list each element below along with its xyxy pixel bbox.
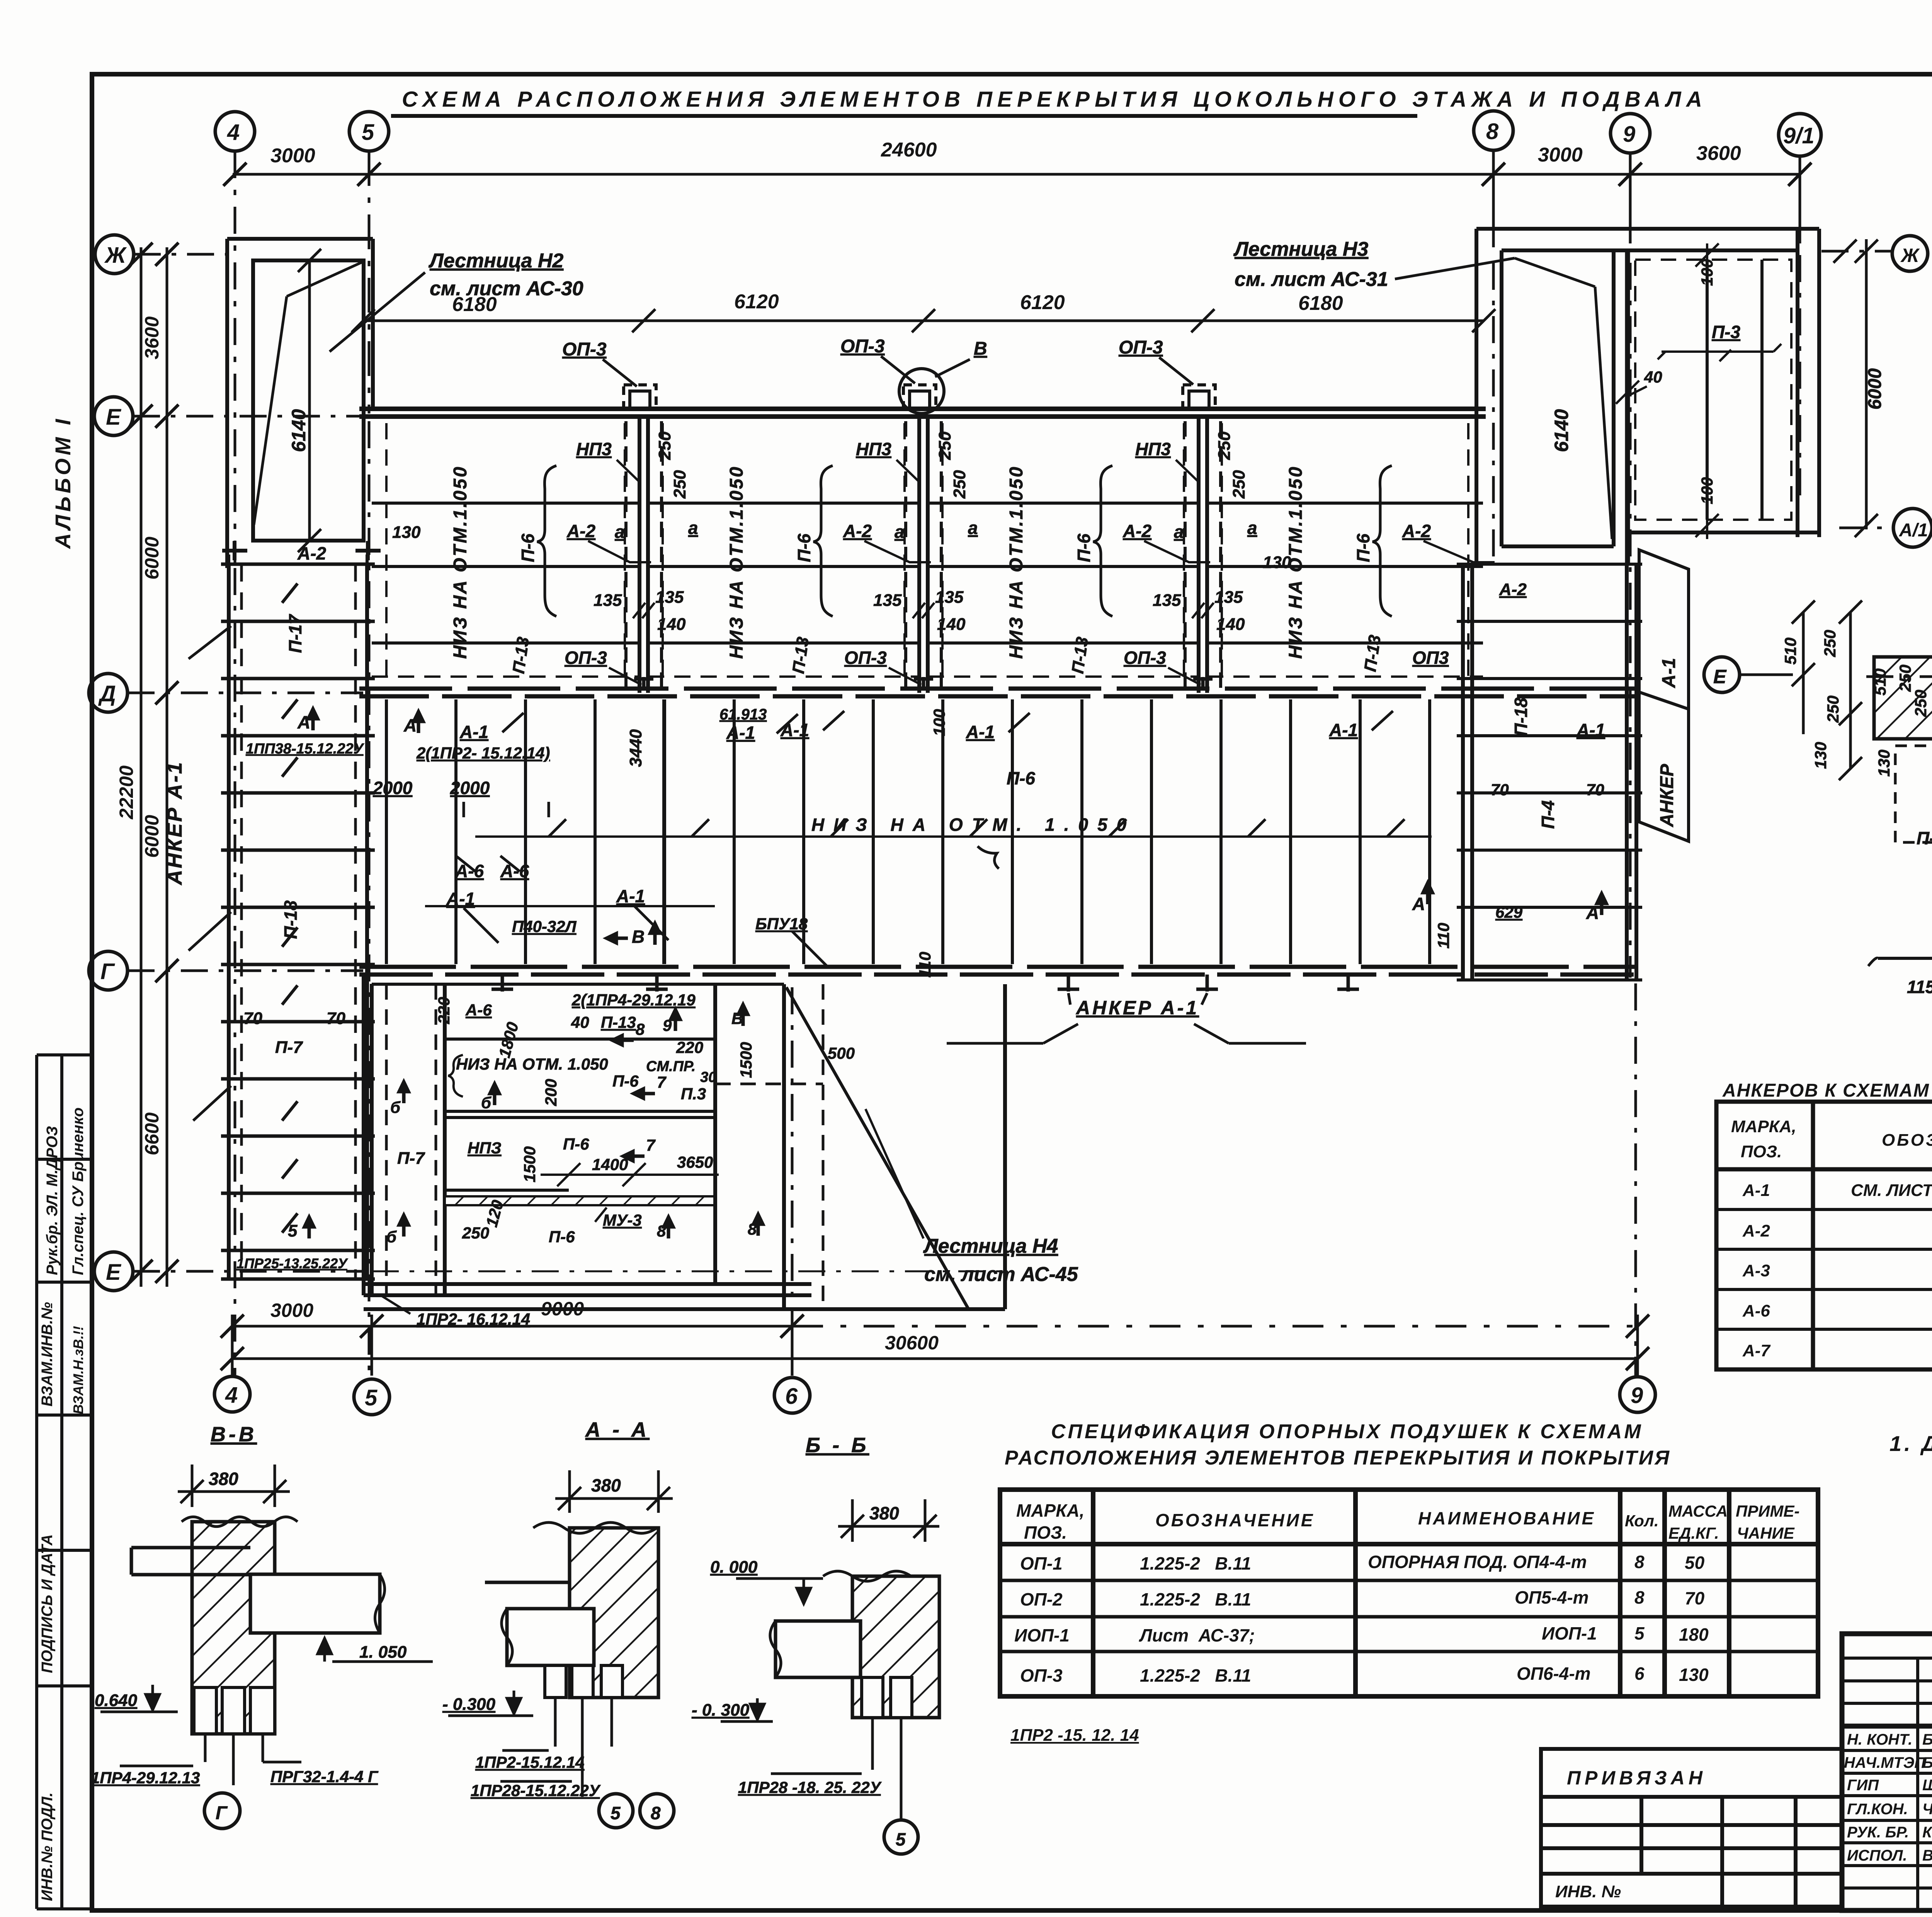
- svg-text:см. лист АС-30: см. лист АС-30: [430, 277, 583, 300]
- svg-text:А-2: А-2: [566, 521, 596, 541]
- svg-text:а: а: [615, 522, 625, 542]
- svg-text:МАРКА,: МАРКА,: [1731, 1117, 1796, 1136]
- svg-text:А-1: А-1: [1742, 1181, 1770, 1200]
- svg-text:Д: Д: [98, 681, 116, 706]
- svg-text:6180: 6180: [1298, 292, 1343, 315]
- svg-text:Гл.спец. СУ Бриненко: Гл.спец. СУ Бриненко: [70, 1107, 87, 1275]
- svg-text:ОП-3: ОП-3: [1020, 1665, 1063, 1686]
- svg-text:30: 30: [700, 1069, 716, 1085]
- svg-text:1.225-2 В.11: 1.225-2 В.11: [1140, 1553, 1251, 1573]
- svg-text:А-2: А-2: [1742, 1221, 1770, 1240]
- svg-text:СПЕЦИФИКАЦИЯ ОПОРНЫХ ПОДУШЕК: СПЕЦИФИКАЦИЯ ОПОРНЫХ ПОДУШЕК К СХЕМАМ: [1051, 1420, 1643, 1443]
- svg-text:А - А: А - А: [585, 1418, 650, 1441]
- svg-text:1ПР4-29.12.13: 1ПР4-29.12.13: [91, 1769, 200, 1787]
- svg-text:ОП-3: ОП-3: [565, 648, 607, 668]
- svg-text:НП3: НП3: [1135, 439, 1171, 459]
- svg-text:- 0. 300: - 0. 300: [692, 1701, 750, 1720]
- svg-text:6120: 6120: [1020, 291, 1065, 314]
- svg-text:6600: 6600: [141, 1112, 163, 1155]
- svg-text:110: 110: [1434, 923, 1452, 949]
- svg-text:П-3: П-3: [1712, 322, 1740, 342]
- svg-text:А-1: А-1: [966, 722, 995, 742]
- svg-text:2000: 2000: [450, 778, 490, 798]
- svg-text:61.913: 61.913: [719, 706, 767, 723]
- svg-text:40: 40: [571, 1013, 589, 1031]
- svg-text:АЛЬБОМ I: АЛЬБОМ I: [51, 416, 75, 549]
- svg-text:П-4: П-4: [1538, 800, 1558, 829]
- svg-text:А-2: А-2: [1499, 580, 1527, 599]
- svg-text:6: 6: [1634, 1664, 1645, 1684]
- svg-text:250: 250: [655, 431, 674, 460]
- svg-text:6140: 6140: [1551, 409, 1572, 452]
- svg-text:3600: 3600: [1696, 142, 1741, 165]
- svg-text:ВЗАМ.ИНВ.№: ВЗАМ.ИНВ.№: [39, 1302, 56, 1407]
- svg-text:ПОЗ.: ПОЗ.: [1024, 1522, 1067, 1543]
- svg-text:3000: 3000: [270, 145, 315, 167]
- svg-text:РАСПОЛОЖЕНИЯ ЭЛЕМЕНТОВ ПЕРЕК: РАСПОЛОЖЕНИЯ ЭЛЕМЕНТОВ ПЕРЕКРЫТИЯ И ПОКР…: [1005, 1447, 1671, 1469]
- svg-text:2(1ПР4-29.12.19: 2(1ПР4-29.12.19: [571, 991, 696, 1009]
- svg-text:220: 220: [676, 1038, 703, 1056]
- svg-text:А-6: А-6: [455, 861, 484, 881]
- svg-text:5: 5: [362, 120, 374, 145]
- svg-text:В: В: [632, 927, 645, 947]
- svg-text:500: 500: [828, 1044, 855, 1062]
- svg-text:ПРГ32-1.4-4 Г: ПРГ32-1.4-4 Г: [270, 1767, 379, 1786]
- svg-text:250: 250: [1215, 431, 1234, 460]
- svg-text:П-6: П-6: [549, 1228, 575, 1246]
- svg-text:1ПР2- 16.12.14: 1ПР2- 16.12.14: [417, 1310, 530, 1328]
- svg-text:А-1: А-1: [446, 889, 475, 909]
- svg-text:7: 7: [646, 1136, 656, 1154]
- svg-text:СМ. ЛИСТ АС-56: СМ. ЛИСТ АС-56: [1851, 1181, 1932, 1200]
- svg-text:АНКЕРОВ К СХЕМАМ РАСПОЛОЖЕН: АНКЕРОВ К СХЕМАМ РАСПОЛОЖЕНИЯ ЭЛЕМЕНТОВ …: [1722, 1080, 1932, 1101]
- svg-text:1ПР28 -18. 25. 22У: 1ПР28 -18. 25. 22У: [738, 1778, 882, 1796]
- svg-text:а: а: [688, 518, 698, 538]
- svg-text:1.225-2 В.11: 1.225-2 В.11: [1140, 1589, 1251, 1609]
- svg-text:ИНВ. №: ИНВ. №: [1555, 1882, 1621, 1901]
- svg-text:А-1: А-1: [616, 886, 645, 906]
- svg-text:АНКЕР А-1: АНКЕР А-1: [1075, 997, 1199, 1019]
- svg-text:100: 100: [1698, 477, 1716, 504]
- svg-text:5: 5: [1634, 1623, 1645, 1643]
- svg-text:СМ.ПР.: СМ.ПР.: [646, 1058, 696, 1075]
- svg-text:70: 70: [1491, 781, 1509, 799]
- svg-text:ОП-1: ОП-1: [1020, 1553, 1063, 1573]
- svg-text:П-7: П-7: [275, 1038, 303, 1057]
- svg-text:5: 5: [288, 1221, 298, 1240]
- svg-text:135: 135: [655, 588, 684, 607]
- svg-text:5: 5: [365, 1385, 378, 1410]
- svg-text:ОБОЗНАЧЕНИЕ: ОБОЗНАЧЕНИЕ: [1155, 1510, 1315, 1530]
- svg-text:22200: 22200: [116, 765, 137, 820]
- svg-text:100: 100: [930, 709, 948, 736]
- svg-text:250: 250: [670, 470, 689, 499]
- svg-text:8: 8: [1634, 1552, 1645, 1572]
- svg-text:БУХАРИНА: БУХАРИНА: [1922, 1731, 1932, 1748]
- svg-text:130: 130: [1875, 750, 1893, 777]
- svg-text:6000: 6000: [141, 537, 163, 580]
- svg-text:А-2: А-2: [297, 543, 327, 563]
- svg-text:см. лист АС-31: см. лист АС-31: [1235, 268, 1388, 291]
- svg-text:1ПР25-13.25.22У: 1ПР25-13.25.22У: [236, 1255, 348, 1271]
- svg-text:ПОЗ.: ПОЗ.: [1741, 1142, 1782, 1161]
- svg-text:НИЗ НА ОТМ.1.050: НИЗ НА ОТМ.1.050: [450, 465, 471, 659]
- svg-text:130: 130: [1263, 553, 1291, 572]
- svg-text:а: а: [968, 518, 978, 538]
- svg-text:135: 135: [1153, 591, 1181, 610]
- svg-text:380: 380: [209, 1469, 238, 1489]
- svg-text:А-6: А-6: [465, 1001, 492, 1019]
- svg-text:А: А: [1586, 903, 1599, 923]
- svg-text:СХЕМА РАСПОЛОЖЕНИЯ ЭЛЕМЕНТОВ П: СХЕМА РАСПОЛОЖЕНИЯ ЭЛЕМЕНТОВ ПЕРЕКРЫТИЯ …: [402, 87, 1707, 112]
- svg-text:3440: 3440: [626, 729, 645, 767]
- svg-text:510: 510: [1781, 638, 1799, 665]
- svg-text:ПРИВЯЗАН: ПРИВЯЗАН: [1567, 1767, 1706, 1789]
- svg-text:А-1: А-1: [726, 723, 755, 743]
- svg-text:НП3: НП3: [856, 439, 891, 459]
- svg-text:АНКЕР: АНКЕР: [1657, 764, 1677, 827]
- svg-text:70: 70: [243, 1009, 262, 1028]
- svg-text:6000: 6000: [1865, 368, 1885, 410]
- svg-text:В-В: В-В: [211, 1423, 257, 1446]
- svg-text:0. 000: 0. 000: [710, 1558, 758, 1577]
- svg-text:135: 135: [594, 591, 622, 610]
- svg-text:А/1: А/1: [1899, 520, 1928, 541]
- svg-text:7: 7: [657, 1073, 667, 1091]
- svg-text:БПУ18: БПУ18: [755, 915, 808, 933]
- svg-text:135: 135: [935, 588, 964, 607]
- svg-text:ОП3: ОП3: [1412, 648, 1449, 668]
- svg-text:3600: 3600: [141, 316, 163, 359]
- svg-text:1500: 1500: [737, 1042, 755, 1078]
- svg-text:1.225-2 В.11: 1.225-2 В.11: [1140, 1665, 1251, 1686]
- svg-text:70: 70: [1685, 1588, 1705, 1608]
- svg-text:ЕД.КГ.: ЕД.КГ.: [1668, 1524, 1719, 1542]
- svg-text:ОБОЗНАЧЕНИЕ: ОБОЗНАЧЕНИЕ: [1882, 1131, 1932, 1150]
- svg-text:ОП-3: ОП-3: [1124, 648, 1166, 668]
- svg-text:100: 100: [1698, 259, 1716, 286]
- svg-text:НИЗ НА ОТМ. 1.050: НИЗ НА ОТМ. 1.050: [811, 815, 1136, 835]
- svg-text:250: 250: [1896, 665, 1914, 692]
- svg-text:ОП-3: ОП-3: [1119, 337, 1163, 358]
- svg-text:250: 250: [1912, 690, 1930, 717]
- svg-text:Рук.бр. ЭЛ. М.ДРОЗ: Рук.бр. ЭЛ. М.ДРОЗ: [44, 1126, 61, 1275]
- svg-text:380: 380: [591, 1475, 621, 1495]
- svg-text:130: 130: [392, 523, 421, 542]
- svg-text:ГЛ.КОН.: ГЛ.КОН.: [1847, 1801, 1908, 1818]
- svg-text:П-17: П-17: [285, 614, 305, 653]
- svg-text:б: б: [386, 1228, 397, 1246]
- svg-text:4: 4: [227, 120, 240, 145]
- svg-text:3000: 3000: [1538, 144, 1583, 166]
- svg-text:140: 140: [937, 615, 966, 634]
- svg-text:250: 250: [1821, 630, 1839, 657]
- svg-text:ИОП-1: ИОП-1: [1542, 1623, 1597, 1643]
- svg-text:А-1: А-1: [1659, 658, 1679, 688]
- svg-text:115: 115: [1907, 977, 1932, 997]
- svg-text:А-6: А-6: [1742, 1301, 1770, 1320]
- svg-text:130: 130: [1811, 742, 1830, 769]
- svg-text:50: 50: [1685, 1553, 1705, 1573]
- svg-text:МАРКА,: МАРКА,: [1016, 1500, 1085, 1521]
- svg-text:Ж: Ж: [104, 243, 127, 268]
- svg-text:40: 40: [1644, 368, 1662, 386]
- svg-text:а: а: [1247, 518, 1257, 538]
- svg-text:135: 135: [1214, 588, 1243, 607]
- svg-text:510: 510: [1871, 668, 1889, 696]
- svg-text:ПРИМЕ-: ПРИМЕ-: [1736, 1502, 1799, 1520]
- svg-text:В: В: [974, 338, 987, 359]
- svg-text:6120: 6120: [734, 291, 779, 313]
- svg-text:Г: Г: [216, 1803, 228, 1823]
- svg-text:Лист АС-37;: Лист АС-37;: [1139, 1625, 1255, 1645]
- svg-text:220: 220: [435, 997, 453, 1024]
- svg-text:1. ДАННЫЙ ЛИСТ СМ. СОВМЕС: 1. ДАННЫЙ ЛИСТ СМ. СОВМЕСТНО С ЛИСТАМИ А…: [1889, 1431, 1932, 1456]
- svg-text:РУК. БР.: РУК. БР.: [1847, 1824, 1909, 1841]
- svg-text:А-7: А-7: [1742, 1341, 1771, 1360]
- svg-text:Лестница Н2: Лестница Н2: [428, 250, 563, 272]
- svg-text:ЧЕРНЕЦКИЙ: ЧЕРНЕЦКИЙ: [1922, 1800, 1932, 1818]
- svg-text:Лестница Н3: Лестница Н3: [1233, 238, 1368, 260]
- svg-text:ВОЛЬФЛЕНОК: ВОЛЬФЛЕНОК: [1922, 1847, 1932, 1864]
- svg-text:НИЗ НА ОТМ.1.050: НИЗ НА ОТМ.1.050: [1006, 465, 1027, 659]
- svg-text:НИЗ НА ОТМ. 1.050: НИЗ НА ОТМ. 1.050: [456, 1055, 608, 1073]
- svg-text:П40-32Л: П40-32Л: [512, 917, 577, 936]
- svg-text:ОПОРНАЯ ПОД. ОП4-4-т: ОПОРНАЯ ПОД. ОП4-4-т: [1368, 1552, 1587, 1572]
- svg-text:70: 70: [327, 1009, 345, 1028]
- svg-text:П-6: П-6: [1074, 534, 1094, 562]
- svg-text:8: 8: [651, 1803, 661, 1823]
- svg-text:А-2: А-2: [1122, 521, 1152, 541]
- svg-text:АНКЕР А-1: АНКЕР А-1: [163, 761, 186, 886]
- svg-text:ИСПОЛ.: ИСПОЛ.: [1847, 1847, 1907, 1864]
- svg-text:А-2: А-2: [1402, 521, 1431, 541]
- svg-text:ВЗАМ.Н.зВ.!!: ВЗАМ.Н.зВ.!!: [70, 1326, 86, 1414]
- svg-text:П-6: П-6: [1917, 828, 1932, 848]
- svg-text:24600: 24600: [881, 139, 937, 161]
- svg-text:НАЧ.МТЭП: НАЧ.МТЭП: [1844, 1754, 1926, 1771]
- svg-text:6000: 6000: [141, 815, 163, 858]
- svg-text:А: А: [1412, 894, 1425, 914]
- svg-text:3650: 3650: [677, 1153, 713, 1171]
- svg-text:9/1: 9/1: [1783, 123, 1815, 148]
- svg-text:П.3: П.3: [681, 1085, 706, 1103]
- svg-text:ОП-3: ОП-3: [844, 648, 887, 668]
- svg-text:П-6: П-6: [518, 534, 538, 562]
- svg-text:1. 050: 1. 050: [359, 1643, 407, 1662]
- svg-text:3000: 3000: [270, 1300, 313, 1321]
- svg-text:1ПП38-15.12.22У: 1ПП38-15.12.22У: [246, 741, 365, 757]
- svg-text:6: 6: [785, 1384, 798, 1409]
- svg-text:А-2: А-2: [843, 521, 872, 541]
- svg-text:Ж: Ж: [1900, 245, 1920, 266]
- svg-text:250: 250: [462, 1224, 489, 1242]
- svg-text:ПОДПИСЬ И ДАТА: ПОДПИСЬ И ДАТА: [39, 1534, 56, 1673]
- svg-text:П-18: П-18: [1511, 697, 1531, 736]
- svg-text:1500: 1500: [520, 1146, 539, 1182]
- svg-text:ИНВ.№ ПОДЛ.: ИНВ.№ ПОДЛ.: [39, 1793, 56, 1901]
- svg-text:70: 70: [1586, 781, 1604, 799]
- svg-text:250: 250: [1824, 696, 1842, 723]
- svg-text:1ПР28-15.12.22У: 1ПР28-15.12.22У: [471, 1781, 601, 1800]
- svg-text:9: 9: [1623, 122, 1635, 147]
- svg-text:250: 250: [950, 470, 969, 499]
- svg-text:1ПР2 -15. 12. 14: 1ПР2 -15. 12. 14: [1010, 1726, 1139, 1745]
- svg-text:4: 4: [225, 1383, 238, 1408]
- svg-text:250: 250: [935, 431, 954, 460]
- svg-text:135: 135: [873, 591, 902, 610]
- svg-text:МАССА: МАССА: [1668, 1502, 1728, 1520]
- svg-text:ОП5-4-т: ОП5-4-т: [1515, 1587, 1589, 1607]
- svg-text:2(1ПР2- 15.12.14): 2(1ПР2- 15.12.14): [416, 744, 550, 762]
- svg-text:8: 8: [1486, 119, 1499, 144]
- svg-text:9: 9: [1631, 1383, 1643, 1408]
- svg-text:П-6: П-6: [563, 1135, 589, 1153]
- svg-text:140: 140: [657, 615, 686, 634]
- svg-text:П-18: П-18: [281, 900, 301, 939]
- svg-text:а: а: [895, 522, 905, 542]
- svg-text:П-13: П-13: [601, 1013, 636, 1031]
- svg-text:МУ-3: МУ-3: [603, 1211, 642, 1229]
- svg-text:ОП6-4-т: ОП6-4-т: [1517, 1664, 1591, 1684]
- svg-text:А-1: А-1: [459, 722, 488, 742]
- svg-text:БЕГАНСКАЯ: БЕГАНСКАЯ: [1922, 1754, 1932, 1771]
- svg-text:НП3: НП3: [576, 439, 612, 459]
- svg-text:НАИМЕНОВАНИЕ: НАИМЕНОВАНИЕ: [1418, 1508, 1595, 1528]
- svg-text:ИОП-1: ИОП-1: [1014, 1625, 1070, 1645]
- svg-text:б: б: [390, 1098, 401, 1116]
- svg-text:НИЗ НА ОТМ.1.050: НИЗ НА ОТМ.1.050: [726, 465, 747, 659]
- svg-text:П-6: П-6: [612, 1072, 639, 1090]
- svg-text:0.640: 0.640: [95, 1691, 138, 1710]
- svg-text:КОЛУШЕВА: КОЛУШЕВА: [1922, 1824, 1932, 1841]
- svg-text:Б - Б: Б - Б: [806, 1434, 869, 1457]
- svg-text:5: 5: [896, 1829, 906, 1849]
- svg-text:380: 380: [869, 1503, 899, 1523]
- svg-text:П-7: П-7: [397, 1149, 425, 1168]
- svg-text:130: 130: [1679, 1665, 1709, 1685]
- svg-text:2000: 2000: [372, 778, 413, 798]
- svg-text:Е: Е: [106, 405, 122, 430]
- svg-text:140: 140: [1216, 615, 1245, 634]
- svg-text:Лестница Н4: Лестница Н4: [923, 1235, 1058, 1257]
- svg-text:НПЗ: НПЗ: [468, 1139, 502, 1157]
- svg-text:ЧАНИЕ: ЧАНИЕ: [1737, 1524, 1795, 1542]
- svg-text:5: 5: [611, 1803, 621, 1823]
- svg-text:Н. КОНТ.: Н. КОНТ.: [1847, 1731, 1912, 1748]
- svg-text:8: 8: [636, 1020, 645, 1038]
- svg-text:а: а: [1174, 522, 1184, 542]
- svg-text:6140: 6140: [288, 409, 310, 452]
- svg-text:П-6: П-6: [1353, 534, 1373, 562]
- svg-text:180: 180: [1679, 1624, 1709, 1645]
- svg-text:А-1: А-1: [780, 720, 809, 740]
- svg-text:250: 250: [1230, 470, 1248, 499]
- svg-text:А-3: А-3: [1742, 1261, 1770, 1280]
- svg-text:ОП-3: ОП-3: [562, 339, 607, 360]
- svg-text:1400: 1400: [592, 1155, 628, 1174]
- svg-text:1ПР2-15.12.14: 1ПР2-15.12.14: [475, 1753, 584, 1771]
- svg-text:Е: Е: [106, 1260, 122, 1285]
- svg-text:ОП-2: ОП-2: [1020, 1589, 1063, 1609]
- svg-text:8: 8: [1634, 1587, 1645, 1607]
- svg-text:Е: Е: [1713, 666, 1727, 687]
- svg-text:см. лист АС-45: см. лист АС-45: [924, 1263, 1078, 1286]
- svg-text:Г: Г: [100, 959, 115, 984]
- svg-text:200: 200: [542, 1079, 560, 1106]
- svg-text:Кол.: Кол.: [1625, 1512, 1659, 1530]
- svg-text:А-1: А-1: [1329, 720, 1358, 740]
- svg-text:ШЕЛЕЕНЛЯ: ШЕЛЕЕНЛЯ: [1922, 1777, 1932, 1794]
- svg-text:- 0.300: - 0.300: [442, 1695, 496, 1714]
- svg-text:б: б: [481, 1094, 492, 1112]
- svg-text:П-6: П-6: [1007, 768, 1035, 788]
- svg-text:П-6: П-6: [794, 534, 814, 562]
- svg-text:30600: 30600: [885, 1332, 939, 1354]
- svg-text:ГИП: ГИП: [1847, 1777, 1879, 1794]
- svg-text:А-6: А-6: [500, 861, 529, 881]
- svg-text:ОП-3: ОП-3: [840, 336, 885, 357]
